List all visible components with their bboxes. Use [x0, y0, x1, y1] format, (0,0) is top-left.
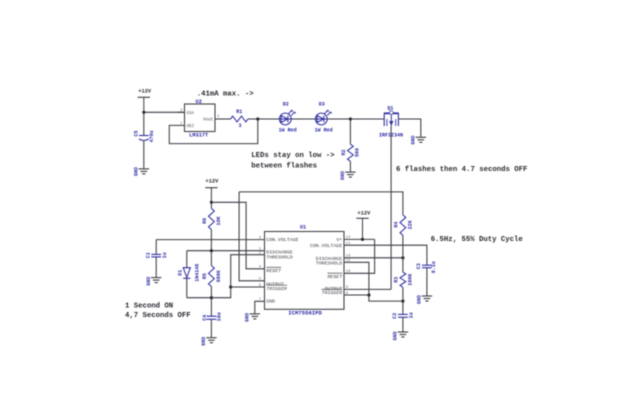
- svg-text:R1: R1: [236, 109, 242, 115]
- diode D1: [186, 251, 188, 268]
- wire +12V to RESET pin 4: [211, 202, 264, 268]
- svg-text:R3: R3: [394, 277, 400, 283]
- capacitor C5: [139, 135, 149, 137]
- wire DISCHARGE pin 13 row: [344, 257, 403, 259]
- node R6 bottom junction: [210, 249, 213, 252]
- wire top rail to R4: [239, 192, 403, 215]
- svg-text:GND: GND: [201, 337, 207, 346]
- svg-text:1W Red: 1W Red: [279, 128, 297, 134]
- svg-text:1N4148: 1N4148: [194, 264, 200, 282]
- svg-text:1W Red: 1W Red: [315, 128, 333, 134]
- svg-text:680K: 680K: [216, 270, 222, 282]
- resistor R2: [348, 144, 354, 161]
- svg-text:GND: GND: [244, 313, 250, 322]
- svg-text:GND: GND: [340, 171, 346, 180]
- svg-text:10u: 10u: [216, 312, 222, 321]
- node R3 bottom junction: [401, 300, 404, 303]
- resistor R5: [210, 251, 212, 266]
- svg-text:Q1: Q1: [387, 106, 393, 112]
- ground below C4: [206, 337, 216, 339]
- svg-text:GND: GND: [146, 277, 152, 286]
- wire discharge row: [187, 250, 265, 252]
- capacitor C4: [210, 298, 212, 316]
- node V+ junction: [361, 238, 364, 241]
- capacitor C1: [155, 240, 157, 255]
- svg-text:+12V: +12V: [357, 211, 371, 217]
- svg-text:D2: D2: [283, 102, 289, 108]
- svg-text:22K: 22K: [408, 220, 414, 229]
- ground below C3: [422, 295, 432, 297]
- resistor R3: [402, 258, 404, 272]
- wire V+ pin 14 row: [344, 238, 375, 240]
- svg-text:4,7 Seconds OFF: 4,7 Seconds OFF: [125, 312, 191, 320]
- transistor Q1 MOSFET: [384, 112, 399, 114]
- svg-text:THRESHOLD: THRESHOLD: [316, 260, 342, 266]
- diode D3 LED: [315, 113, 327, 125]
- op-amp U2 regulator box: [185, 104, 216, 132]
- ground below R2: [345, 171, 355, 173]
- capacitor C3: [422, 264, 432, 266]
- pin stub Vin: [178, 111, 185, 113]
- node R6 top junction: [210, 201, 213, 204]
- svg-text:GND: GND: [266, 298, 275, 304]
- svg-text:GND: GND: [393, 331, 399, 340]
- ground below C5: [139, 168, 149, 170]
- pin stub ADJ: [178, 124, 185, 126]
- wire +12V to U2 Vin: [144, 111, 185, 113]
- svg-text:ICM7556IPD: ICM7556IPD: [288, 310, 322, 317]
- svg-text:1u: 1u: [162, 252, 168, 258]
- wire junction to R2: [349, 119, 351, 144]
- pin stub Vout: [215, 118, 222, 120]
- svg-text:100K: 100K: [408, 274, 414, 286]
- svg-text:1u: 1u: [408, 312, 414, 318]
- wire TRIGGER pin 8 row: [344, 294, 369, 296]
- svg-text:C3: C3: [416, 263, 422, 269]
- ground below C2: [398, 331, 408, 333]
- resistor R1: [231, 116, 249, 122]
- svg-text:D1: D1: [177, 270, 183, 276]
- capacitor C2: [402, 301, 404, 314]
- svg-text:10K: 10K: [216, 216, 222, 225]
- svg-text:LEDs stay on low ->: LEDs stay on low ->: [251, 152, 335, 160]
- svg-text:U1: U1: [300, 224, 306, 230]
- wire Vout to R1: [222, 118, 231, 120]
- svg-text:R5: R5: [202, 273, 208, 279]
- svg-text:R2: R2: [341, 149, 347, 155]
- svg-text:6 flashes then 4.7 seconds OFF: 6 flashes then 4.7 seconds OFF: [396, 166, 527, 174]
- svg-text:CON.VOLTAGE: CON.VOLTAGE: [266, 237, 298, 243]
- svg-text:R4: R4: [394, 222, 400, 228]
- svg-text:470u: 470u: [149, 130, 155, 142]
- node Vin junction: [142, 111, 145, 114]
- wire control voltage pin 3 row: [156, 239, 264, 241]
- wire ADJ feedback loop: [169, 119, 257, 144]
- node R2 top junction: [349, 117, 352, 120]
- node trigger-threshold junction: [367, 293, 370, 296]
- wire C5 to ground: [143, 141, 145, 169]
- svg-text:3: 3: [238, 123, 241, 129]
- svg-text:GND: GND: [417, 295, 423, 304]
- wire D2 to D3: [291, 118, 315, 120]
- svg-text:between flashes: between flashes: [251, 162, 317, 170]
- diode D2 LED: [279, 113, 291, 125]
- svg-text:RESET: RESET: [328, 274, 344, 280]
- wire V+ to RESET pin 10: [344, 239, 375, 273]
- wire Q1 to ground lead: [398, 119, 420, 137]
- wire bottom node row: [187, 255, 265, 298]
- svg-text:C5: C5: [134, 130, 140, 136]
- svg-text:GND: GND: [411, 135, 417, 144]
- svg-text:+12V: +12V: [138, 89, 152, 95]
- svg-text:R6: R6: [202, 218, 208, 224]
- svg-text:1 Second ON: 1 Second ON: [125, 302, 173, 310]
- svg-text:560: 560: [355, 148, 361, 157]
- svg-text:+12V: +12V: [205, 178, 219, 184]
- wire R1 to D2: [248, 118, 279, 120]
- wire output pin 5 to top rail: [239, 192, 264, 281]
- svg-text:C4: C4: [202, 315, 208, 321]
- svg-text:TRIGGER: TRIGGER: [322, 290, 343, 296]
- ground below C1: [151, 277, 161, 279]
- node trigger junction: [229, 285, 232, 288]
- svg-text:GND: GND: [133, 167, 139, 176]
- wire trigger pin 6: [231, 286, 265, 288]
- svg-text:C2: C2: [392, 313, 398, 319]
- node R1 output junction: [256, 117, 259, 120]
- svg-text:6.5Hz, 55% Duty Cycle: 6.5Hz, 55% Duty Cycle: [431, 236, 524, 244]
- svg-text:THRESHOLD: THRESHOLD: [266, 254, 292, 260]
- svg-text:D3: D3: [319, 102, 325, 108]
- svg-text:.41mA max. ->: .41mA max. ->: [197, 90, 255, 98]
- wire R2 to ground: [349, 161, 351, 172]
- node R4 bottom junction: [401, 256, 404, 259]
- wire node to C5: [143, 112, 145, 135]
- svg-text:TRIGGER: TRIGGER: [266, 286, 287, 292]
- svg-text:0.1u: 0.1u: [431, 261, 437, 273]
- ground right of Q1: [416, 136, 426, 138]
- svg-text:U2: U2: [196, 99, 202, 105]
- resistor R6: [210, 202, 212, 208]
- node C4 junction: [210, 296, 213, 299]
- svg-text:CON.VOLTAGE: CON.VOLTAGE: [310, 243, 342, 249]
- wire GND pin 7 to ground: [255, 301, 265, 313]
- wire Q1 gate down to U1 output: [390, 126, 392, 289]
- svg-text:LM317T: LM317T: [189, 133, 209, 139]
- svg-text:V+: V+: [336, 237, 342, 243]
- wire THRESHOLD pin 12 net: [344, 262, 403, 301]
- svg-text:Vin: Vin: [186, 111, 194, 116]
- wire D3 to Q1: [327, 118, 384, 120]
- resistor R4: [400, 215, 406, 235]
- wire OUTPUT pin 9 row: [344, 288, 391, 290]
- svg-text:ADJ: ADJ: [186, 125, 194, 129]
- svg-text:Vout: Vout: [203, 118, 214, 122]
- ground below U1 pin 7: [250, 313, 260, 315]
- op-amp U1 timer box: [265, 232, 345, 310]
- svg-text:C1: C1: [145, 252, 151, 258]
- wire CV pin 11 to C3: [344, 245, 427, 265]
- svg-text:RESET: RESET: [266, 268, 282, 274]
